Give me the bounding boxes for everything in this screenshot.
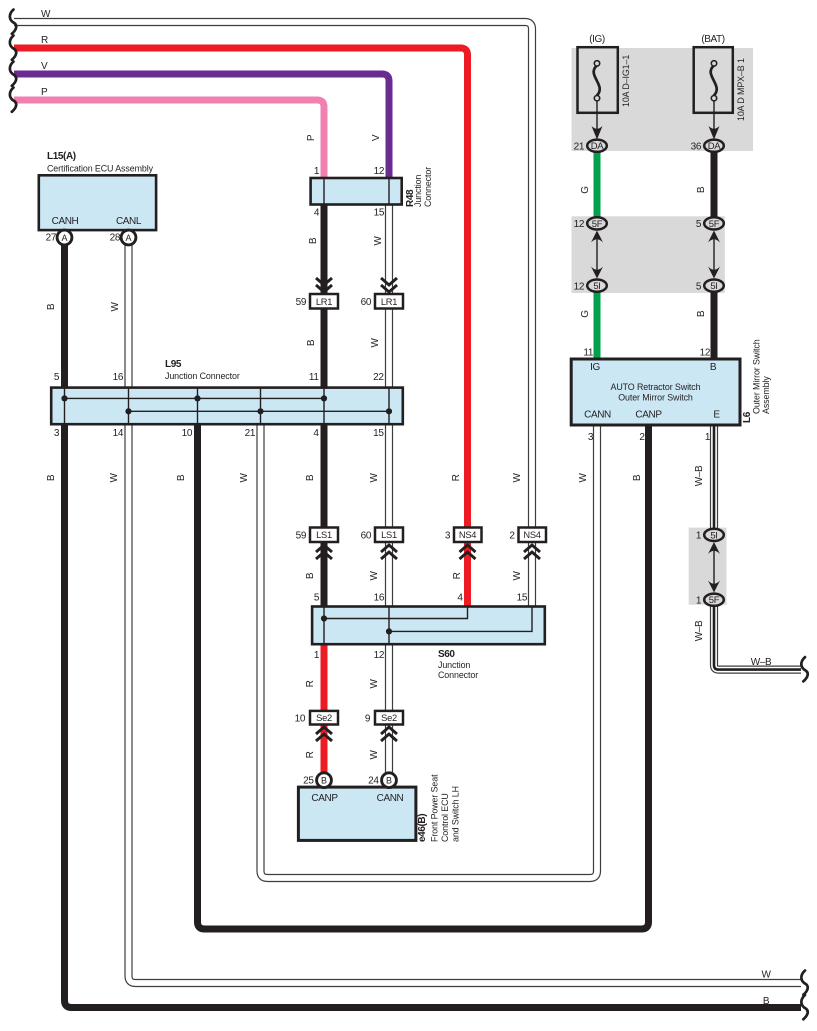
svg-text:CANL: CANL [116, 216, 142, 227]
svg-text:5F: 5F [709, 595, 720, 606]
wire V top: from left edge to R48 pin 12 [14, 74, 389, 178]
svg-text:R: R [451, 474, 462, 481]
svg-text:1: 1 [696, 595, 702, 606]
break squiggle W bottom right [801, 971, 807, 995]
R48 internal pin line 1-4 [323, 178, 325, 205]
svg-text:16: 16 [113, 372, 124, 383]
wire W L95 pin14 to bottom right edge [129, 424, 802, 983]
wire B L95 pin4 to LS1-59 to S60 pin5 [321, 424, 328, 528]
svg-text:B: B [305, 572, 316, 579]
junction connector S60 box [312, 607, 545, 645]
S60 bus dot B [386, 628, 392, 634]
svg-text:15: 15 [373, 428, 384, 439]
svg-text:W: W [512, 571, 523, 581]
L95 internal pin lines [65, 388, 390, 425]
power seat ECU e46(B) box [298, 787, 416, 840]
svg-text:R: R [41, 35, 48, 46]
svg-text:LS1: LS1 [316, 530, 332, 540]
wire W L95 pin15 to LS1-60 to S60 pin16 [385, 424, 393, 528]
svg-text:1: 1 [696, 531, 702, 542]
svg-text:15: 15 [374, 208, 385, 219]
svg-text:3: 3 [54, 428, 60, 439]
wire W top: from left edge to NS4(2) [14, 22, 532, 528]
fuse IG box [578, 47, 618, 113]
svg-text:24: 24 [368, 776, 379, 787]
L95 W bus junction dots [125, 408, 392, 414]
svg-text:CANN: CANN [584, 410, 611, 421]
svg-text:B: B [696, 310, 707, 317]
chevrons above LR1-59 [316, 278, 332, 292]
svg-text:E: E [713, 410, 720, 421]
connector box 3 NS4 [454, 528, 482, 543]
svg-text:B: B [696, 186, 707, 193]
svg-text:CANP: CANP [311, 793, 338, 804]
svg-text:5I: 5I [710, 281, 717, 292]
connector oval 12 5F [587, 217, 607, 230]
svg-text:Certification ECU Assembly: Certification ECU Assembly [47, 164, 154, 174]
chevrons below NS4-2 [524, 545, 540, 559]
svg-text:LR1: LR1 [381, 297, 397, 307]
chevrons above LR1-60 [381, 278, 397, 292]
wire B fuse BAT/DA to 5F [711, 148, 718, 222]
connector box 2 NS4 [519, 528, 547, 543]
svg-text:A: A [61, 233, 67, 243]
break squiggle W-B right [801, 657, 807, 681]
svg-text:2: 2 [639, 432, 645, 443]
svg-text:B: B [305, 474, 316, 481]
connector box 60 LS1 [375, 528, 403, 543]
S60 internal pin lines [324, 607, 389, 645]
fuse BAT lead and arrow to DA [713, 101, 715, 130]
svg-text:G: G [580, 310, 591, 318]
svg-text:60: 60 [361, 531, 372, 542]
svg-text:(IG): (IG) [589, 34, 605, 45]
svg-text:10A D MPX–B 1: 10A D MPX–B 1 [736, 58, 746, 121]
svg-text:4: 4 [457, 593, 463, 604]
connector pair 5F/5I shading [572, 216, 725, 293]
arrows between 5F and 5I right [708, 231, 720, 279]
S60 internal bus pin5-pin4 [324, 607, 468, 619]
svg-text:W: W [578, 473, 589, 483]
svg-text:1: 1 [705, 432, 711, 443]
svg-text:W: W [369, 679, 380, 689]
chevrons below Se2-9 [381, 727, 397, 741]
svg-text:W: W [110, 302, 121, 312]
svg-text:12: 12 [374, 166, 385, 177]
svg-text:Junction: Junction [438, 660, 470, 670]
fuse BAT symbol [711, 61, 717, 101]
wire W NS4-2 to S60 pin15 [528, 542, 536, 608]
break squiggle B bottom right [801, 995, 807, 1019]
connector circle 27 A [57, 230, 72, 245]
break squiggle P left [10, 88, 16, 112]
svg-text:IG: IG [590, 362, 600, 373]
svg-text:NS4: NS4 [459, 530, 476, 540]
fuse block shading [572, 48, 754, 151]
connector oval 1 5I right [704, 529, 724, 541]
fuse IG lead and arrow to DA [596, 101, 598, 130]
svg-text:W: W [369, 473, 380, 483]
svg-text:CANP: CANP [635, 410, 662, 421]
arrows between 5F and 5I left [591, 231, 603, 279]
svg-text:W–B: W–B [694, 620, 705, 641]
connector oval 12 5I [587, 280, 607, 293]
junction connector L95 box [51, 388, 403, 425]
svg-text:22: 22 [373, 372, 384, 383]
svg-text:4: 4 [314, 208, 320, 219]
svg-text:12: 12 [574, 281, 585, 292]
svg-text:AUTO Retractor Switch: AUTO Retractor Switch [611, 382, 701, 392]
svg-text:V: V [41, 61, 48, 72]
ECU L15(A) box [39, 175, 156, 230]
svg-text:DA: DA [591, 141, 605, 152]
fuse IG symbol [594, 61, 600, 101]
svg-text:LR1: LR1 [316, 297, 332, 307]
svg-text:10: 10 [295, 714, 306, 725]
break squiggle W left [10, 10, 16, 34]
svg-text:G: G [580, 186, 591, 194]
connector oval 21 DA [587, 140, 607, 152]
svg-text:B: B [386, 776, 392, 786]
L95 B bus junction dots [61, 395, 327, 401]
svg-text:A: A [125, 233, 131, 243]
junction connector R48 box [311, 178, 402, 205]
chevrons below Se2-10 [316, 727, 332, 741]
connector circle 24 B [382, 773, 397, 788]
svg-text:Junction Connector: Junction Connector [165, 371, 240, 381]
svg-text:W: W [369, 750, 380, 760]
svg-text:W: W [41, 9, 51, 20]
svg-text:Front Power Seat: Front Power Seat [430, 774, 440, 842]
svg-text:12: 12 [574, 219, 585, 230]
wire B L15 pin27 to L95 pin5 [61, 243, 68, 388]
svg-text:12: 12 [700, 348, 711, 359]
svg-text:V: V [371, 134, 382, 141]
svg-text:5: 5 [54, 372, 60, 383]
svg-text:36: 36 [691, 142, 702, 153]
svg-text:e46(B): e46(B) [417, 814, 428, 842]
svg-text:14: 14 [113, 428, 124, 439]
outer mirror switch L6 box [571, 359, 740, 425]
svg-text:5I: 5I [710, 530, 717, 541]
svg-text:11: 11 [583, 348, 593, 359]
svg-text:W: W [370, 338, 381, 348]
wire W L95 pin21 loop to mirror switch CANN pin3 [261, 424, 598, 878]
svg-text:B: B [308, 237, 319, 244]
svg-text:Control ECU: Control ECU [440, 793, 450, 842]
chevrons below LS1-59 [316, 545, 332, 559]
svg-text:W: W [239, 473, 250, 483]
wire W-B mirror switch pinE to 1-5I [710, 425, 718, 532]
break squiggle V left [10, 62, 16, 86]
connector oval 1 5F right [704, 594, 724, 606]
svg-text:Se2: Se2 [381, 713, 397, 723]
svg-text:16: 16 [374, 593, 385, 604]
wire B L95 pin10 loop to mirror switch CANP pin2 [198, 424, 649, 929]
connector box 59 LR1 [310, 294, 338, 309]
svg-text:(BAT): (BAT) [701, 34, 724, 45]
break squiggle R left [10, 36, 16, 60]
svg-text:B: B [176, 474, 187, 481]
svg-text:5: 5 [696, 219, 702, 230]
svg-text:W: W [369, 571, 380, 581]
svg-text:3: 3 [588, 432, 594, 443]
svg-text:S60: S60 [438, 649, 455, 660]
svg-text:5F: 5F [592, 219, 603, 230]
svg-text:1: 1 [314, 166, 320, 177]
svg-text:W: W [761, 970, 771, 981]
svg-text:NS4: NS4 [523, 530, 540, 540]
svg-text:P: P [41, 87, 48, 98]
svg-text:R: R [305, 680, 316, 687]
svg-text:B: B [710, 362, 717, 373]
svg-text:Junction: Junction [413, 175, 423, 207]
svg-text:15: 15 [517, 593, 528, 604]
wire W-B 1-5F to right edge [714, 602, 801, 670]
svg-text:R: R [305, 751, 316, 758]
svg-text:and Switch LH: and Switch LH [451, 786, 461, 842]
svg-text:60: 60 [361, 297, 372, 308]
wire G 5I to mirror switch pin11 [594, 288, 601, 359]
svg-text:3: 3 [445, 531, 451, 542]
svg-text:B: B [763, 996, 770, 1007]
svg-text:CANN: CANN [377, 793, 404, 804]
wire W R48 pin15 to LR1-60 to L95 pin22 [385, 205, 393, 297]
connector oval 36 DA [704, 140, 724, 152]
L95 internal W bus [129, 410, 390, 412]
wire R top: from left edge to NS4(3) [14, 48, 468, 528]
svg-text:W: W [512, 473, 523, 483]
connector box 59 LS1 [310, 528, 338, 543]
svg-text:11: 11 [309, 372, 319, 383]
connector pair 1-5I/5F shading [689, 528, 727, 605]
svg-text:59: 59 [296, 531, 307, 542]
svg-text:R: R [452, 572, 463, 579]
wire W S60 pin12 to Se2-9 to e46 pin24 [385, 644, 393, 712]
wire B 5I to mirror switch pin12 [711, 288, 718, 359]
svg-text:2: 2 [509, 531, 515, 542]
svg-text:LS1: LS1 [381, 530, 397, 540]
svg-text:Connector: Connector [438, 670, 478, 680]
svg-text:59: 59 [296, 297, 307, 308]
svg-text:W–B: W–B [694, 465, 705, 486]
svg-text:B: B [306, 339, 317, 346]
svg-text:CANH: CANH [52, 216, 79, 227]
svg-text:10: 10 [182, 428, 193, 439]
svg-text:B: B [632, 474, 643, 481]
connector circle 28 A [121, 230, 136, 245]
svg-text:Connector: Connector [423, 167, 433, 207]
svg-text:1: 1 [314, 650, 320, 661]
svg-text:27: 27 [46, 233, 57, 244]
svg-text:5: 5 [696, 281, 702, 292]
S60 bus dot A [321, 615, 327, 621]
wire B R48 pin4 to LR1-59 to L95 pin11 [321, 205, 328, 297]
svg-text:Outer Mirror Switch: Outer Mirror Switch [752, 339, 762, 414]
svg-text:Assembly: Assembly [761, 376, 771, 414]
svg-text:5: 5 [314, 593, 320, 604]
fuse BAT box [694, 47, 733, 113]
connector oval 5 5I [704, 280, 724, 293]
wire R NS4-3 to S60 pin4 [464, 542, 471, 608]
arrows between 5I and 5F right column [708, 542, 720, 593]
svg-text:28: 28 [110, 233, 121, 244]
svg-text:21: 21 [245, 428, 256, 439]
chevrons below LS1-60 [381, 545, 397, 559]
connector circle 25 B [317, 773, 332, 788]
svg-text:W–B: W–B [751, 657, 772, 668]
svg-text:9: 9 [365, 714, 371, 725]
svg-text:B: B [321, 776, 327, 786]
svg-text:DA: DA [708, 141, 722, 152]
svg-text:10A D–IG1–1: 10A D–IG1–1 [621, 55, 631, 107]
svg-text:W: W [373, 236, 384, 246]
svg-text:Outer Mirror Switch: Outer Mirror Switch [618, 393, 693, 403]
wire P top: from left edge to R48 pin 1 [14, 100, 324, 178]
svg-text:5F: 5F [709, 219, 720, 230]
svg-text:B: B [46, 474, 57, 481]
wire B L95 pin3 to bottom right edge [65, 424, 802, 1008]
chevrons below NS4-3 [460, 545, 476, 559]
svg-text:5I: 5I [593, 281, 600, 292]
svg-text:L15(A): L15(A) [47, 151, 76, 162]
connector oval 5 5F [704, 217, 724, 230]
S60 internal bus pin16-pin15 [389, 607, 532, 632]
connector box 9 Se2 [375, 711, 403, 725]
svg-text:21: 21 [574, 142, 585, 153]
connector box 10 Se2 [310, 711, 338, 725]
svg-text:12: 12 [374, 650, 385, 661]
R48 internal pin line 12-15 [388, 178, 390, 205]
wire W L15 pin28 to L95 pin16 [124, 243, 132, 388]
svg-text:25: 25 [303, 776, 314, 787]
svg-text:L95: L95 [165, 359, 182, 370]
wire G fuse IG/DA to 5F [594, 148, 601, 222]
connector box 60 LR1 [375, 294, 403, 309]
svg-text:W: W [109, 473, 120, 483]
svg-text:P: P [306, 134, 317, 141]
wire R S60 pin1 to Se2-10 to e46 pin25 [321, 644, 328, 712]
L95 internal B bus [65, 397, 325, 399]
svg-text:4: 4 [313, 428, 319, 439]
svg-text:Se2: Se2 [316, 713, 332, 723]
svg-text:B: B [46, 303, 57, 310]
